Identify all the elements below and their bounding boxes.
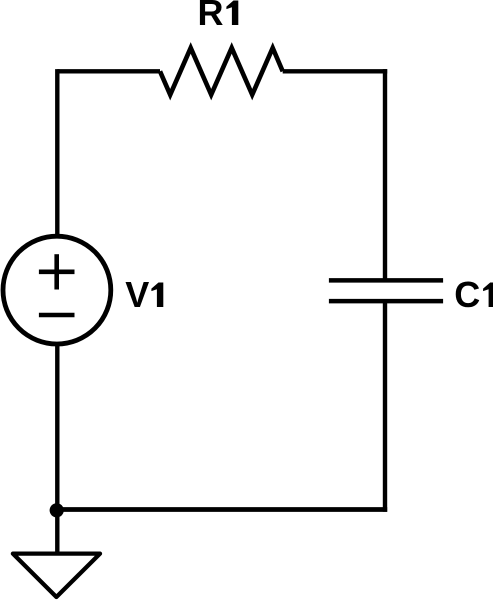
capacitor C1 [329,280,443,301]
wire top-right segment [283,69,388,73]
ground [13,554,100,597]
wire top-left segment [57,69,160,73]
label R1 [198,0,239,33]
svg-text:C: C [454,274,480,315]
resistor R1 [160,48,283,95]
wire left lower (V1 bottom to junction) [55,344,59,511]
wire left upper (top corner to V1 top) [55,69,59,236]
voltage source V1 [3,236,111,344]
label C1 [454,274,493,315]
wire right lower (C1 bottom plate to bottom corner) [383,301,387,512]
wire right upper (top corner to C1 top plate) [383,69,387,280]
label V1 [125,274,163,315]
wire bottom segment [57,507,387,512]
svg-text:V: V [125,274,149,315]
junction dot [50,503,64,517]
svg-text:R: R [198,0,224,33]
wire ground stub [55,510,59,554]
